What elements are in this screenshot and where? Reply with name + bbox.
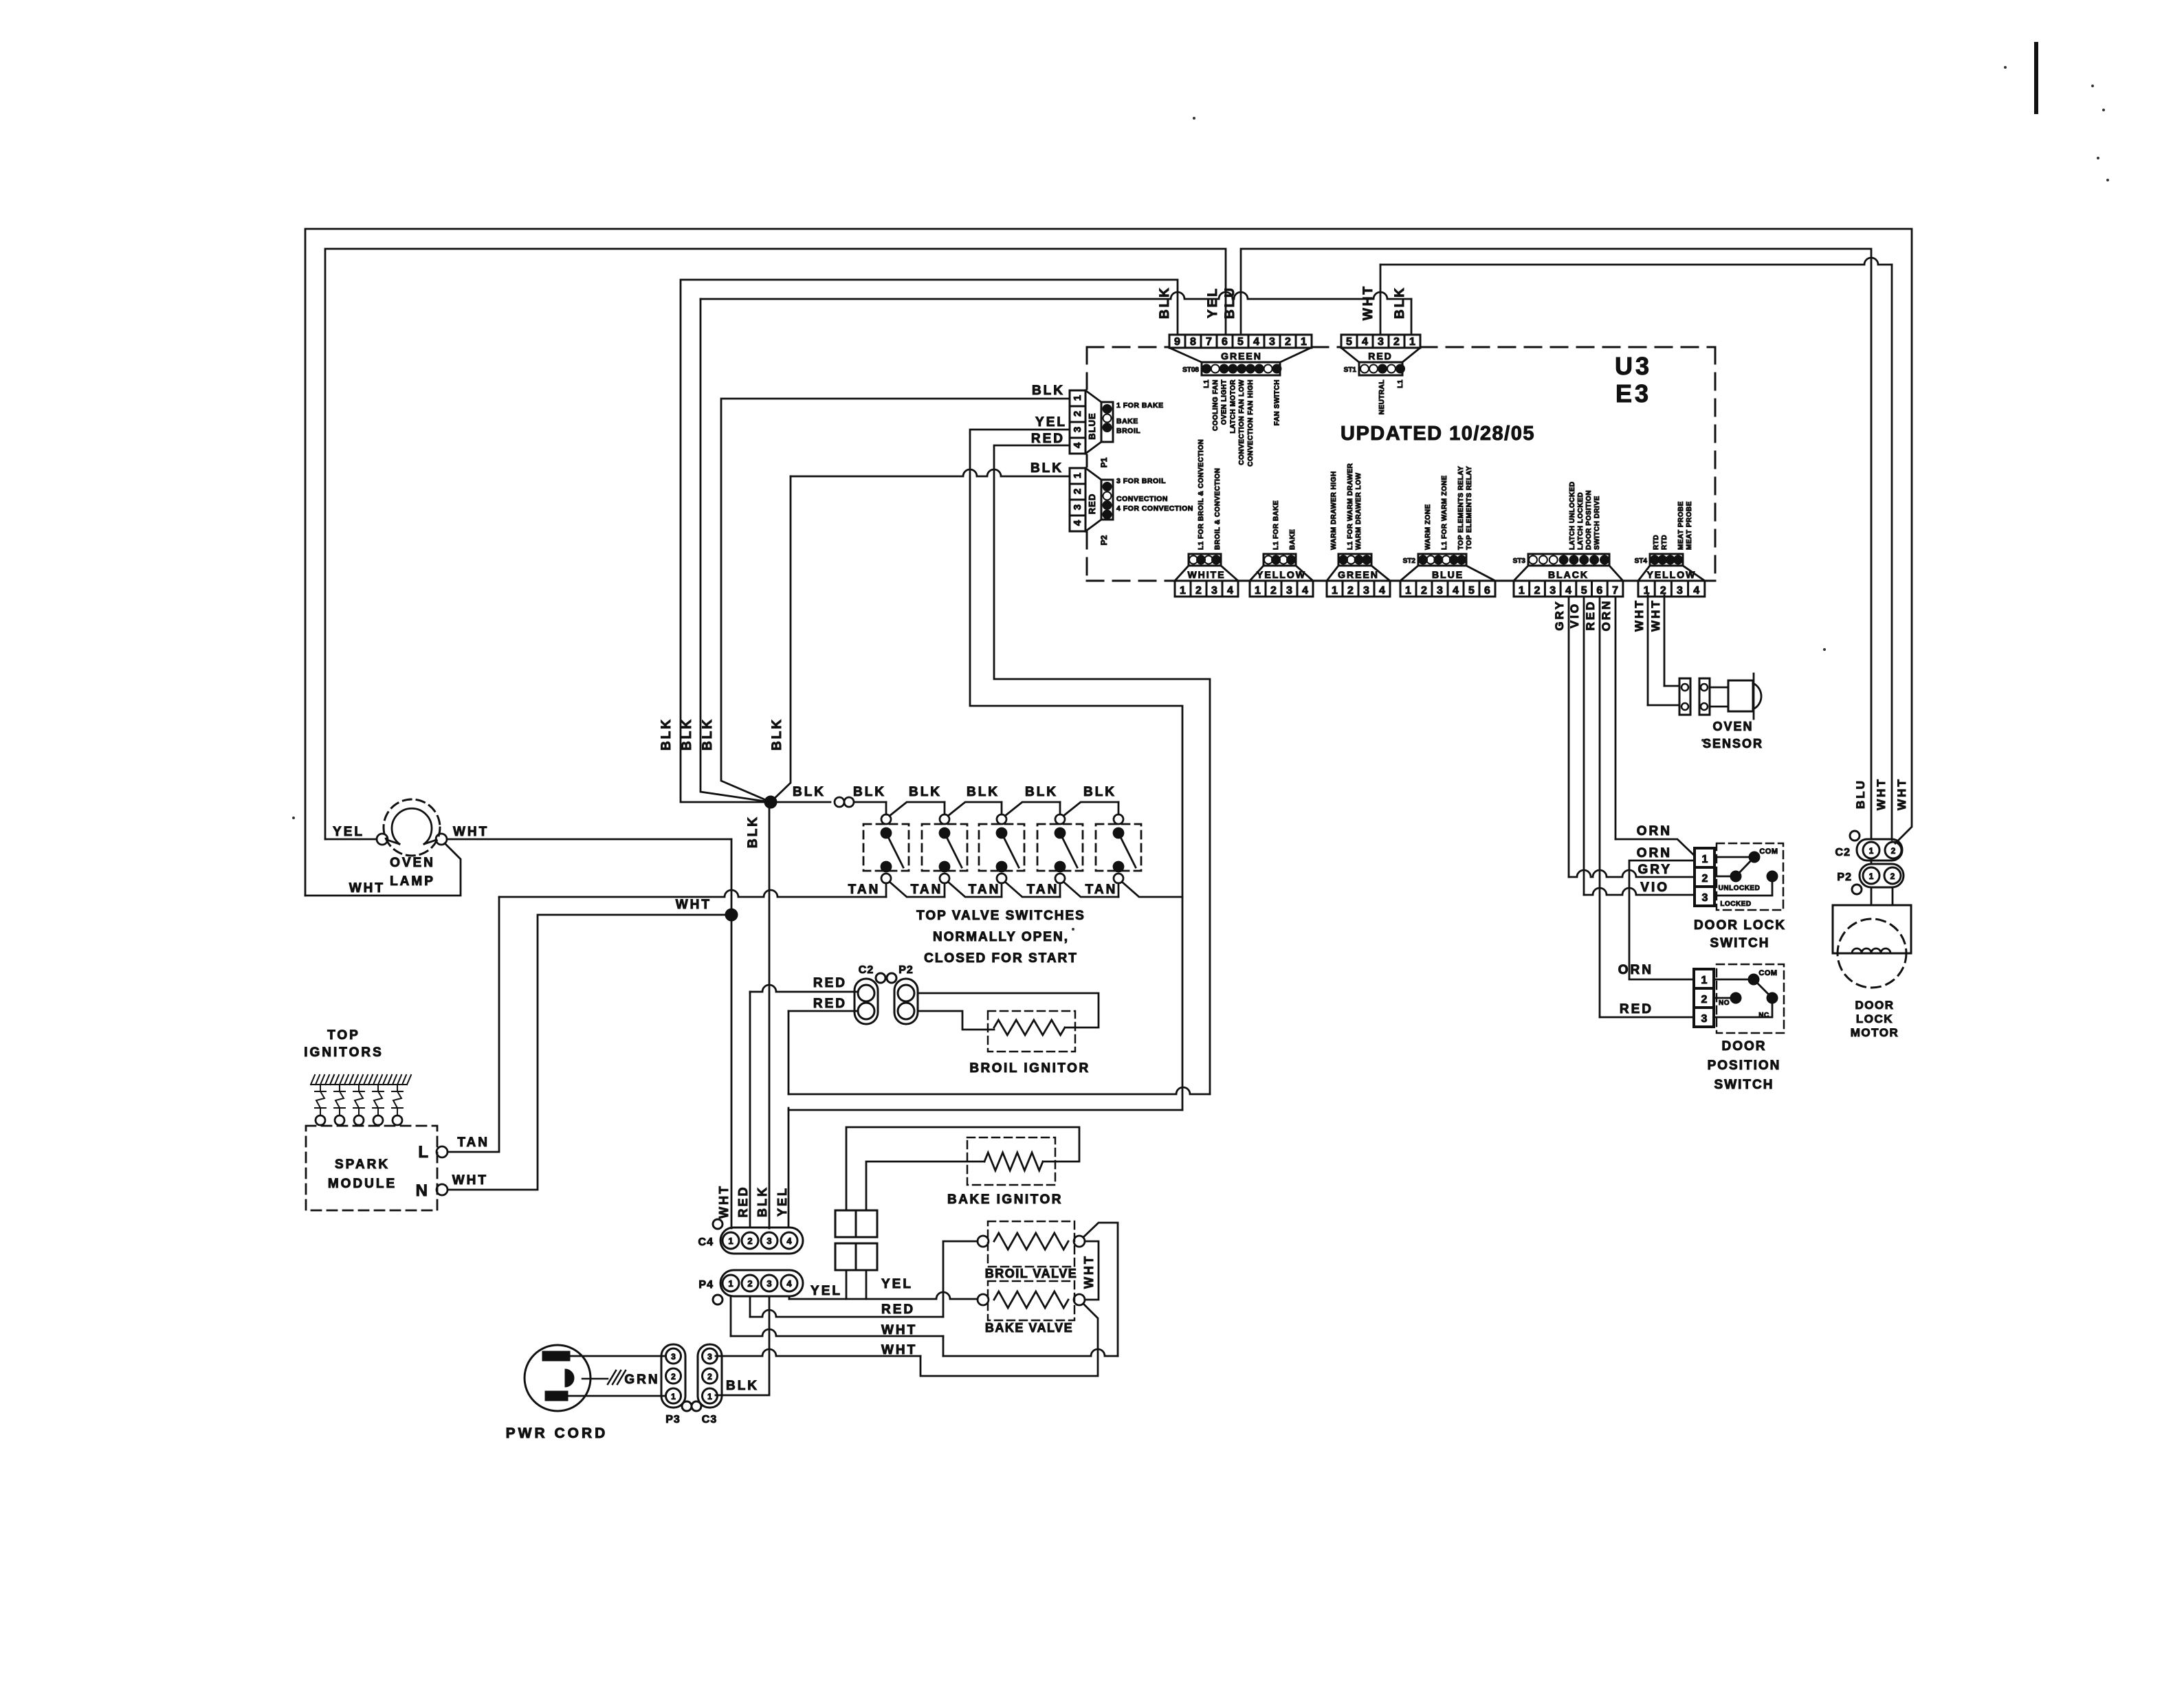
svg-text:L1: L1: [1397, 379, 1404, 388]
svg-text:GRN: GRN: [624, 1373, 659, 1387]
svg-text:2: 2: [1072, 411, 1083, 417]
svg-text:UNLOCKED: UNLOCKED: [1719, 885, 1761, 892]
svg-text:ORN: ORN: [1637, 846, 1672, 860]
svg-text:3: 3: [1702, 892, 1708, 904]
svg-text:6: 6: [1484, 585, 1490, 597]
svg-text:LATCH UNLOCKED: LATCH UNLOCKED: [1569, 481, 1576, 550]
svg-text:BAKE: BAKE: [1289, 529, 1297, 550]
svg-text:5: 5: [1581, 585, 1587, 597]
svg-text:4: 4: [1072, 442, 1083, 448]
svg-text:LOCKED: LOCKED: [1720, 900, 1751, 908]
svg-text:TAN: TAN: [457, 1135, 489, 1150]
svg-text:BLK: BLK: [853, 785, 886, 799]
svg-text:U3: U3: [1615, 352, 1652, 380]
svg-text:POSITION: POSITION: [1708, 1058, 1781, 1073]
svg-text:4: 4: [1362, 336, 1368, 348]
svg-text:1: 1: [1701, 975, 1708, 986]
svg-text:1 FOR BAKE: 1 FOR BAKE: [1116, 401, 1164, 410]
svg-text:1: 1: [1702, 854, 1708, 865]
svg-text:BROIL & CONVECTION: BROIL & CONVECTION: [1214, 468, 1222, 550]
svg-text:3: 3: [1072, 427, 1083, 432]
svg-text:4: 4: [1693, 585, 1699, 597]
svg-text:L1 FOR BROIL & CONVECTION: L1 FOR BROIL & CONVECTION: [1198, 439, 1205, 550]
svg-text:1: 1: [728, 1278, 733, 1289]
svg-text:YEL: YEL: [810, 1284, 842, 1298]
svg-text:2: 2: [1701, 994, 1708, 1006]
svg-text:2: 2: [1072, 489, 1083, 494]
svg-text:4: 4: [1072, 520, 1083, 526]
svg-text:WHT: WHT: [676, 898, 712, 912]
svg-text:1: 1: [1405, 585, 1411, 597]
svg-text:2: 2: [707, 1372, 712, 1381]
svg-text:7: 7: [1612, 585, 1618, 597]
svg-text:LATCH MOTOR: LATCH MOTOR: [1229, 379, 1237, 434]
svg-text:SWITCH: SWITCH: [1710, 936, 1770, 951]
svg-text:CONVECTION FAN HIGH: CONVECTION FAN HIGH: [1247, 379, 1255, 467]
svg-text:WHT: WHT: [881, 1343, 917, 1357]
svg-text:TAN: TAN: [1085, 882, 1118, 897]
svg-text:5: 5: [1346, 336, 1352, 348]
svg-text:BLK: BLK: [726, 1379, 759, 1393]
svg-text:TOP VALVE SWITCHES: TOP VALVE SWITCHES: [916, 909, 1085, 923]
svg-text:3 FOR BROIL: 3 FOR BROIL: [1116, 477, 1166, 485]
svg-text:E3: E3: [1615, 379, 1651, 408]
svg-text:1: 1: [1332, 585, 1338, 597]
svg-text:MOTOR: MOTOR: [1851, 1026, 1899, 1039]
svg-text:1: 1: [1409, 336, 1415, 348]
svg-text:P2: P2: [1837, 871, 1852, 883]
svg-text:BLK: BLK: [1032, 384, 1065, 398]
svg-text:BAKE IGNITOR: BAKE IGNITOR: [947, 1192, 1063, 1207]
svg-text:RED: RED: [1087, 493, 1097, 514]
svg-text:WHT: WHT: [1361, 285, 1376, 320]
svg-text:2: 2: [1270, 585, 1277, 597]
svg-text:3: 3: [1363, 585, 1369, 597]
svg-text:3: 3: [1677, 585, 1683, 597]
svg-text:L1 FOR WARM ZONE: L1 FOR WARM ZONE: [1441, 475, 1448, 550]
svg-text:BLU: BLU: [1854, 779, 1867, 809]
svg-text:ORN: ORN: [1618, 963, 1653, 977]
svg-text:DOOR LOCK: DOOR LOCK: [1694, 918, 1786, 933]
svg-text:P4: P4: [698, 1279, 714, 1291]
svg-text:P1: P1: [1099, 457, 1109, 467]
svg-text:4 FOR CONVECTION: 4 FOR CONVECTION: [1116, 504, 1193, 513]
svg-text:ORN: ORN: [1600, 599, 1613, 632]
svg-text:8: 8: [1190, 336, 1196, 348]
svg-text:1: 1: [707, 1392, 712, 1401]
svg-text:OVEN: OVEN: [390, 856, 435, 870]
svg-text:GRY: GRY: [1553, 599, 1566, 630]
svg-text:C3: C3: [702, 1414, 717, 1425]
svg-text:1: 1: [671, 1392, 676, 1401]
svg-text:NO: NO: [1719, 999, 1730, 1007]
svg-text:2: 2: [1891, 846, 1896, 856]
svg-text:BLK: BLK: [659, 718, 674, 751]
svg-text:YELLOW: YELLOW: [1646, 569, 1696, 580]
svg-text:1: 1: [1072, 473, 1083, 478]
svg-text:C2: C2: [1835, 847, 1851, 858]
svg-text:YEL: YEL: [1206, 287, 1220, 318]
svg-text:4: 4: [1379, 585, 1385, 597]
svg-text:2: 2: [1702, 873, 1708, 885]
svg-text:L1 FOR BAKE: L1 FOR BAKE: [1272, 500, 1280, 550]
svg-text:6: 6: [1222, 336, 1228, 348]
svg-text:YELLOW: YELLOW: [1257, 569, 1306, 580]
svg-text:YEL: YEL: [1035, 415, 1067, 430]
svg-text:BLK: BLK: [909, 785, 942, 799]
svg-text:RED: RED: [881, 1302, 915, 1317]
svg-text:WHT: WHT: [1875, 777, 1888, 810]
svg-text:7: 7: [1206, 336, 1212, 348]
svg-text:DOOR POSITION: DOOR POSITION: [1585, 490, 1593, 550]
svg-text:RED: RED: [813, 976, 847, 990]
svg-text:WARM DRAWER LOW: WARM DRAWER LOW: [1355, 472, 1363, 550]
svg-text:BLK: BLK: [1030, 461, 1063, 476]
svg-text:BLK: BLK: [701, 718, 715, 751]
svg-text:COOLING FAN: COOLING FAN: [1212, 379, 1220, 431]
svg-text:BAKE VALVE: BAKE VALVE: [985, 1321, 1073, 1335]
svg-text:C2: C2: [859, 964, 874, 976]
svg-text:TAN: TAN: [969, 882, 1001, 897]
svg-text:CONVECTION: CONVECTION: [1116, 495, 1168, 503]
svg-text:N: N: [416, 1181, 430, 1200]
svg-text:VIO: VIO: [1640, 880, 1669, 895]
svg-text:WHT: WHT: [1082, 1254, 1096, 1289]
svg-text:P2: P2: [898, 964, 914, 976]
svg-text:TOP ELEMENTS RELAY: TOP ELEMENTS RELAY: [1457, 466, 1465, 550]
svg-text:P3: P3: [665, 1414, 681, 1425]
svg-text:FAN SWITCH: FAN SWITCH: [1273, 379, 1281, 425]
svg-text:3: 3: [766, 1278, 771, 1289]
svg-text:SPARK: SPARK: [335, 1157, 390, 1172]
svg-text:YEL: YEL: [333, 825, 364, 839]
svg-text:CLOSED FOR START: CLOSED FOR START: [924, 951, 1078, 966]
svg-text:PWR CORD: PWR CORD: [506, 1425, 608, 1441]
svg-text:L1: L1: [1203, 379, 1211, 388]
svg-text:4: 4: [1565, 585, 1571, 597]
svg-text:1: 1: [1869, 871, 1874, 881]
svg-text:4: 4: [1253, 336, 1259, 348]
svg-text:MEAT PROBE: MEAT PROBE: [1686, 501, 1693, 550]
svg-text:9: 9: [1174, 336, 1180, 348]
svg-text:GREEN: GREEN: [1338, 569, 1379, 580]
svg-text:BLK: BLK: [1083, 785, 1116, 799]
svg-text:YEL: YEL: [775, 1186, 789, 1217]
svg-text:3: 3: [1701, 1013, 1708, 1025]
svg-text:BLACK: BLACK: [1548, 569, 1589, 580]
svg-text:BLUE: BLUE: [1087, 412, 1097, 439]
svg-text:5: 5: [1237, 336, 1244, 348]
svg-text:2: 2: [1347, 585, 1354, 597]
svg-text:BLU: BLU: [1223, 286, 1237, 319]
svg-text:2: 2: [747, 1278, 752, 1289]
svg-text:BROIL IGNITOR: BROIL IGNITOR: [969, 1061, 1090, 1076]
svg-text:BROIL: BROIL: [1116, 427, 1140, 435]
svg-text:2: 2: [671, 1372, 676, 1381]
svg-text:SENSOR: SENSOR: [1703, 737, 1763, 751]
svg-text:RED: RED: [1620, 1002, 1653, 1017]
svg-text:2: 2: [1393, 336, 1400, 348]
svg-text:ST2: ST2: [1403, 557, 1416, 565]
svg-text:ST3: ST3: [1513, 557, 1526, 565]
svg-text:ST08: ST08: [1182, 366, 1199, 374]
svg-text:NC: NC: [1758, 1012, 1769, 1019]
svg-text:L1 FOR WARM DRAWER: L1 FOR WARM DRAWER: [1347, 463, 1354, 550]
svg-text:WHT: WHT: [717, 1184, 731, 1219]
svg-text:BLUE: BLUE: [1432, 569, 1464, 580]
svg-text:TOP ELEMENTS RELAY: TOP ELEMENTS RELAY: [1466, 466, 1473, 550]
svg-text:NEUTRAL: NEUTRAL: [1378, 379, 1386, 414]
svg-text:RTD: RTD: [1653, 535, 1660, 550]
svg-text:BLK: BLK: [1025, 785, 1058, 799]
svg-text:3: 3: [1211, 585, 1217, 597]
svg-text:3: 3: [1286, 585, 1292, 597]
svg-text:BLK: BLK: [755, 1186, 769, 1217]
svg-text:5: 5: [1468, 585, 1475, 597]
svg-text:RTD: RTD: [1661, 535, 1668, 550]
svg-text:BLK: BLK: [1393, 286, 1407, 319]
svg-text:BAKE: BAKE: [1116, 417, 1138, 425]
svg-text:WHT: WHT: [349, 881, 385, 896]
svg-text:L: L: [418, 1143, 430, 1162]
svg-text:2: 2: [1195, 585, 1202, 597]
svg-text:6: 6: [1596, 585, 1602, 597]
svg-text:GRY: GRY: [1638, 863, 1672, 877]
svg-text:RED: RED: [813, 997, 847, 1011]
svg-text:WHT: WHT: [452, 1173, 488, 1188]
svg-text:VIO: VIO: [1568, 602, 1581, 628]
svg-text:BLK: BLK: [680, 718, 694, 751]
svg-text:TAN: TAN: [848, 882, 881, 897]
svg-text:3: 3: [1072, 504, 1083, 510]
svg-text:TAN: TAN: [1027, 882, 1059, 897]
svg-text:WHITE: WHITE: [1187, 569, 1225, 580]
svg-text:1: 1: [1869, 846, 1874, 856]
svg-text:BROIL VALVE: BROIL VALVE: [985, 1267, 1078, 1280]
svg-text:4: 4: [786, 1278, 792, 1289]
svg-text:YEL: YEL: [881, 1277, 913, 1291]
svg-text:BLK: BLK: [793, 785, 826, 799]
svg-text:LOCK: LOCK: [1856, 1012, 1893, 1025]
svg-text:OVEN: OVEN: [1712, 720, 1753, 733]
svg-text:IGNITORS: IGNITORS: [304, 1045, 384, 1060]
svg-text:BLK: BLK: [1158, 286, 1172, 319]
svg-text:WARM ZONE: WARM ZONE: [1424, 504, 1432, 550]
svg-text:UPDATED 10/28/05: UPDATED 10/28/05: [1341, 423, 1535, 445]
svg-text:1: 1: [1301, 336, 1307, 348]
svg-text:3: 3: [1437, 585, 1443, 597]
svg-text:C4: C4: [698, 1236, 714, 1248]
svg-text:P2: P2: [1099, 535, 1109, 545]
svg-text:1: 1: [728, 1236, 733, 1246]
svg-text:TOP: TOP: [327, 1028, 360, 1043]
svg-text:1: 1: [1255, 585, 1261, 597]
svg-text:1: 1: [1072, 395, 1083, 401]
svg-text:4: 4: [1227, 585, 1233, 597]
svg-text:3: 3: [707, 1352, 712, 1362]
svg-text:4: 4: [1453, 585, 1459, 597]
svg-text:ST4: ST4: [1635, 557, 1648, 565]
svg-text:COM: COM: [1758, 969, 1777, 977]
svg-text:MODULE: MODULE: [328, 1177, 397, 1191]
svg-text:DOOR: DOOR: [1722, 1039, 1767, 1054]
svg-text:TAN: TAN: [911, 882, 943, 897]
svg-text:2: 2: [747, 1236, 752, 1246]
svg-text:4: 4: [1302, 585, 1308, 597]
svg-text:WHT: WHT: [1895, 777, 1908, 810]
svg-text:1: 1: [1519, 585, 1525, 597]
svg-text:BLK: BLK: [746, 815, 760, 848]
svg-text:3: 3: [766, 1236, 771, 1246]
svg-text:2: 2: [1534, 585, 1541, 597]
svg-text:ST1: ST1: [1344, 366, 1357, 374]
svg-text:RED: RED: [1031, 432, 1065, 446]
svg-text:RED: RED: [1584, 600, 1597, 631]
svg-text:RED: RED: [736, 1185, 750, 1217]
svg-text:SWITCH DRIVE: SWITCH DRIVE: [1593, 496, 1601, 550]
svg-text:COM: COM: [1759, 847, 1778, 856]
svg-text:1: 1: [1180, 585, 1186, 597]
svg-text:RED: RED: [1368, 351, 1393, 362]
svg-text:2: 2: [1421, 585, 1427, 597]
svg-text:LAMP: LAMP: [390, 874, 435, 889]
svg-text:BLK: BLK: [770, 718, 784, 751]
svg-text:3: 3: [1269, 336, 1275, 348]
svg-text:WHT: WHT: [453, 825, 489, 839]
svg-text:DOOR: DOOR: [1855, 999, 1895, 1012]
svg-text:WHT: WHT: [1649, 599, 1662, 632]
svg-text:WHT: WHT: [1633, 599, 1646, 632]
svg-text:MEAT PROBE: MEAT PROBE: [1677, 501, 1685, 550]
svg-text:4: 4: [786, 1236, 792, 1246]
svg-text:ORN: ORN: [1637, 824, 1672, 839]
svg-text:BLK: BLK: [967, 785, 1000, 799]
svg-text:CONVECTION FAN LOW: CONVECTION FAN LOW: [1238, 379, 1246, 465]
svg-text:3: 3: [1549, 585, 1556, 597]
svg-text:2: 2: [1890, 871, 1895, 881]
svg-text:2: 2: [1285, 336, 1291, 348]
svg-text:SWITCH: SWITCH: [1714, 1078, 1774, 1092]
svg-text:3: 3: [671, 1352, 676, 1362]
svg-text:WARM DRAWER HIGH: WARM DRAWER HIGH: [1330, 471, 1338, 550]
svg-text:GREEN: GREEN: [1221, 351, 1262, 362]
svg-text:3: 3: [1378, 336, 1384, 348]
svg-text:NORMALLY OPEN,: NORMALLY OPEN,: [933, 930, 1069, 944]
svg-text:LATCH LOCKED: LATCH LOCKED: [1577, 492, 1585, 550]
svg-text:OVEN LIGHT: OVEN LIGHT: [1221, 379, 1228, 425]
svg-text:2: 2: [1660, 585, 1666, 597]
svg-text:WHT: WHT: [881, 1323, 917, 1337]
